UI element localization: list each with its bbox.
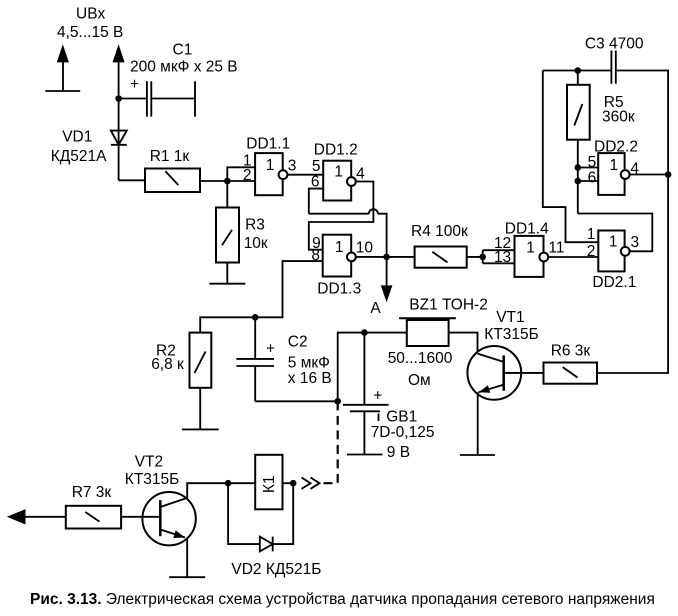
svg-text:1: 1 <box>587 226 596 243</box>
svg-text:4,5...15 В: 4,5...15 В <box>57 24 123 41</box>
svg-text:2: 2 <box>243 167 252 184</box>
svg-text:DD1.1: DD1.1 <box>246 136 290 153</box>
svg-text:4: 4 <box>356 165 365 182</box>
svg-text:1: 1 <box>609 234 618 251</box>
svg-text:R4 100к: R4 100к <box>411 223 468 240</box>
svg-text:4: 4 <box>630 161 639 178</box>
svg-text:C2: C2 <box>288 334 308 351</box>
svg-text:К1: К1 <box>261 475 278 493</box>
svg-text:А: А <box>370 300 381 317</box>
svg-text:UBх: UBх <box>76 5 106 22</box>
svg-text:10: 10 <box>356 239 374 256</box>
svg-text:х 16 В: х 16 В <box>288 370 332 387</box>
svg-text:+: + <box>373 387 382 404</box>
svg-text:10к: 10к <box>244 235 268 252</box>
svg-text:VD2 КД521Б: VD2 КД521Б <box>231 561 321 578</box>
svg-text:1: 1 <box>266 157 275 174</box>
svg-text:GB1: GB1 <box>386 408 417 425</box>
svg-text:DD2.2: DD2.2 <box>594 139 638 156</box>
svg-text:200 мкФ х 25 В: 200 мкФ х 25 В <box>130 59 238 76</box>
svg-text:Рис. 3.13. Электрическая схема: Рис. 3.13. Электрическая схема устройств… <box>30 591 655 608</box>
svg-text:1: 1 <box>334 164 343 181</box>
svg-text:+: + <box>130 76 139 93</box>
svg-text:3: 3 <box>631 234 640 251</box>
svg-text:Ом: Ом <box>408 372 431 389</box>
svg-text:50...1600: 50...1600 <box>388 350 453 367</box>
svg-text:1: 1 <box>609 157 618 174</box>
svg-text:DD1.3: DD1.3 <box>317 281 361 298</box>
svg-text:R1 1к: R1 1к <box>150 148 190 165</box>
svg-text:VT2: VT2 <box>135 454 163 471</box>
svg-text:C3 4700: C3 4700 <box>585 36 644 53</box>
svg-text:C1: C1 <box>173 42 193 59</box>
svg-text:R3: R3 <box>245 216 265 233</box>
svg-text:8: 8 <box>311 247 320 264</box>
svg-text:7D-0,125: 7D-0,125 <box>371 424 435 441</box>
svg-text:3: 3 <box>288 158 297 175</box>
svg-text:13: 13 <box>494 249 511 266</box>
svg-text:6: 6 <box>588 170 597 187</box>
svg-text:КТ315Б: КТ315Б <box>484 326 539 343</box>
svg-text:R7 3к: R7 3к <box>72 484 112 501</box>
svg-text:1: 1 <box>526 239 535 256</box>
svg-text:2: 2 <box>587 243 596 260</box>
svg-text:6: 6 <box>311 174 320 191</box>
svg-text:360к: 360к <box>602 109 635 126</box>
svg-text:R6 3к: R6 3к <box>551 343 591 360</box>
svg-text:КД521А: КД521А <box>51 148 107 165</box>
svg-text:11: 11 <box>548 239 564 256</box>
svg-text:DD1.4: DD1.4 <box>505 220 549 237</box>
svg-text:BZ1 ТОН-2: BZ1 ТОН-2 <box>409 297 488 314</box>
svg-text:DD2.1: DD2.1 <box>592 274 636 291</box>
svg-text:КТ315Б: КТ315Б <box>125 471 180 488</box>
svg-text:6,8 к: 6,8 к <box>151 356 184 373</box>
svg-text:5: 5 <box>588 154 597 171</box>
svg-text:1: 1 <box>335 239 344 256</box>
svg-text:VT1: VT1 <box>496 309 524 326</box>
svg-text:+: + <box>266 341 275 358</box>
svg-text:DD1.2: DD1.2 <box>314 142 358 159</box>
svg-text:VD1: VD1 <box>62 129 92 146</box>
svg-text:9 В: 9 В <box>387 444 410 461</box>
